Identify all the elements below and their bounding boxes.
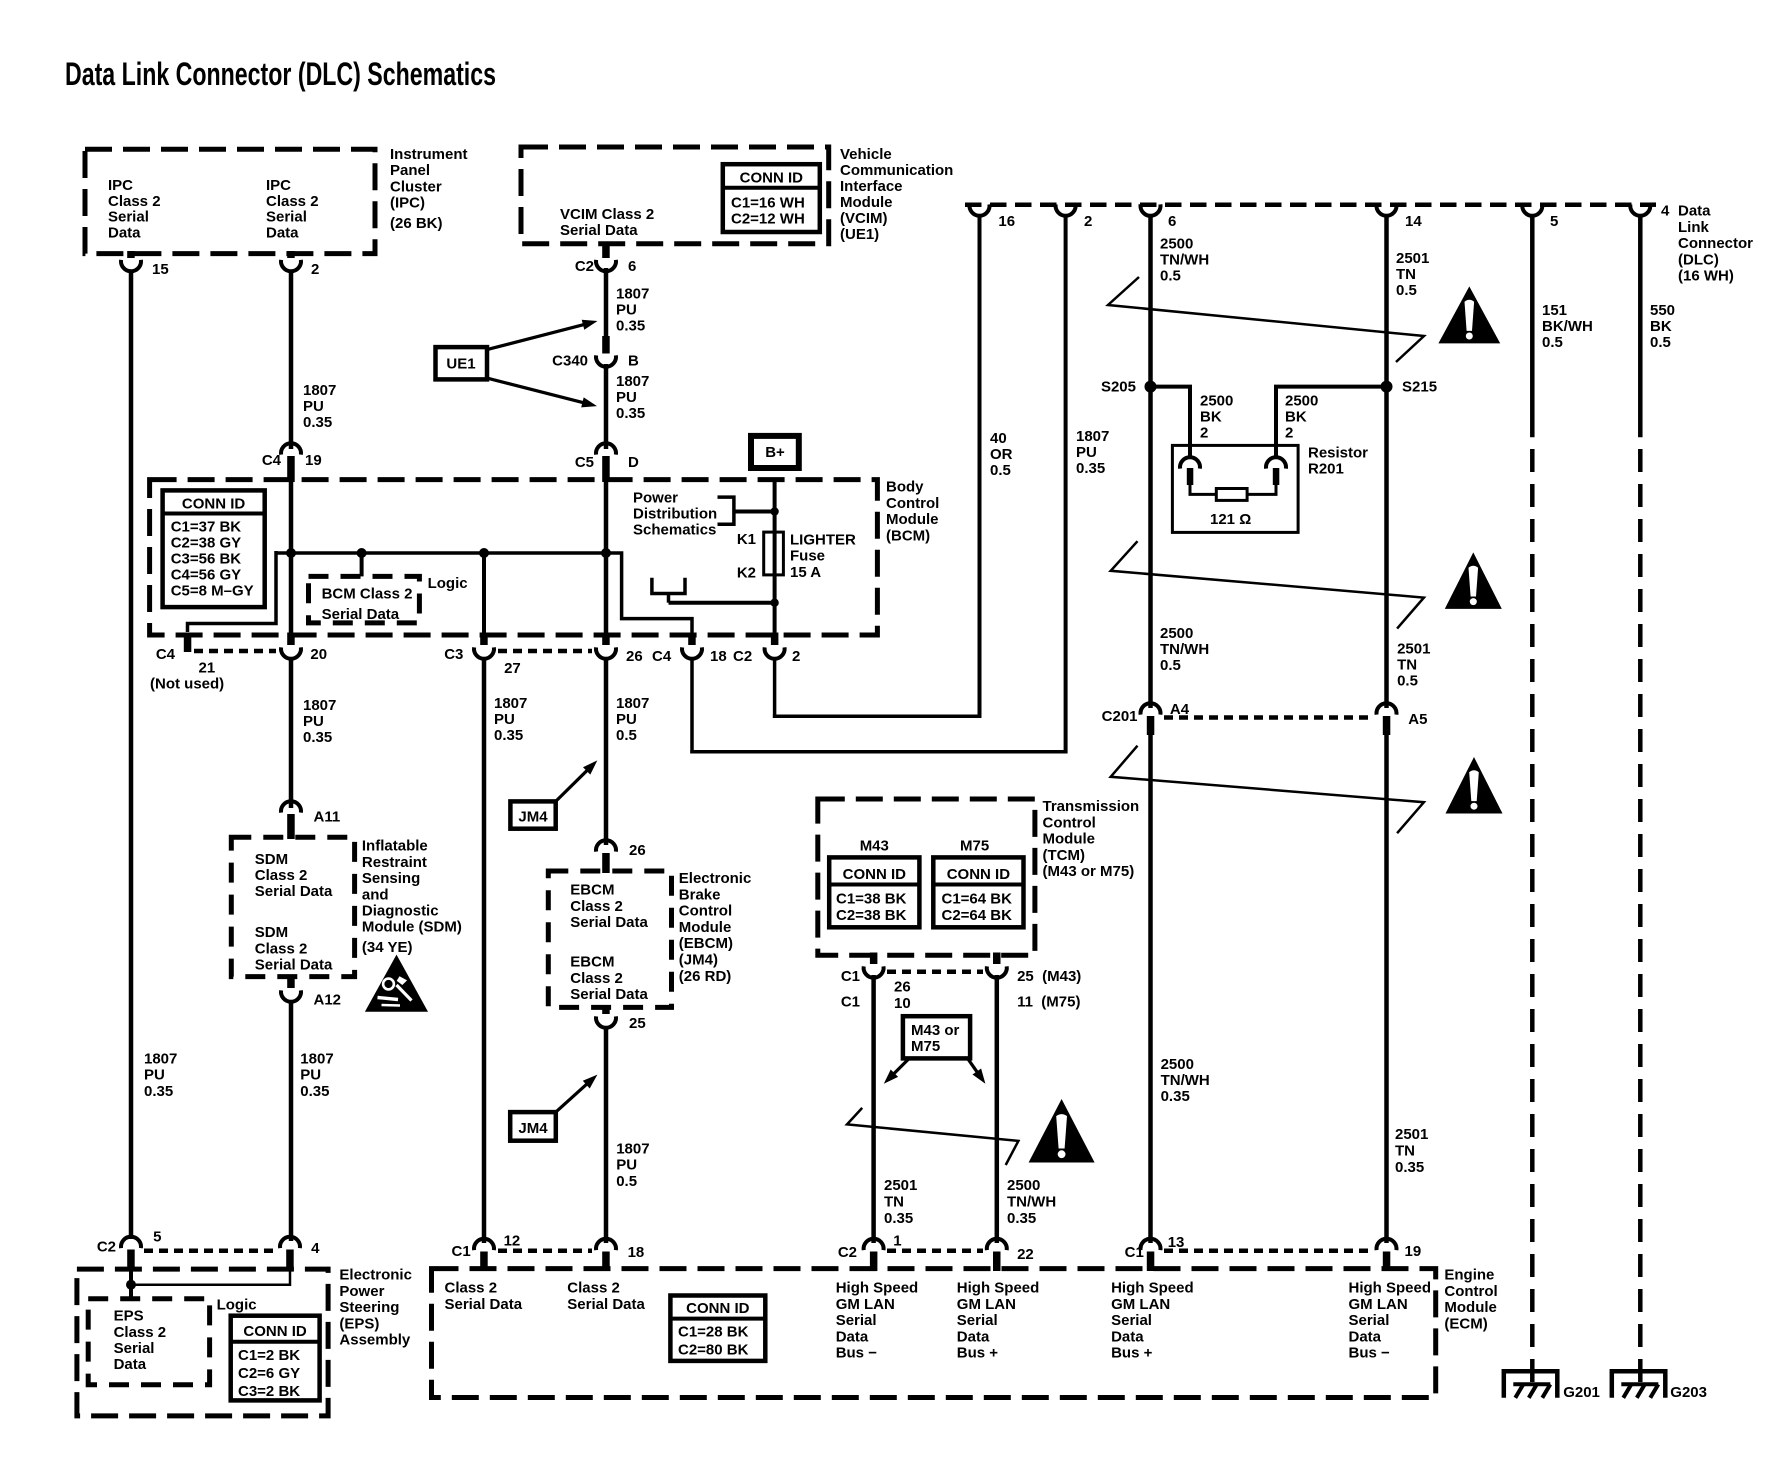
splice S215 xyxy=(1381,381,1393,393)
wire TCM right to ECM 22 (2500 TN/WH) xyxy=(995,975,1000,1243)
svg-text:C340: C340 xyxy=(552,353,588,370)
wire bus elbow to C4-18 xyxy=(604,553,692,640)
svg-text:C4: C4 xyxy=(262,452,282,469)
svg-text:PU: PU xyxy=(616,389,637,406)
svg-text:D: D xyxy=(628,454,639,471)
svg-text:C3=56 BK: C3=56 BK xyxy=(171,551,242,568)
svg-text:Interface: Interface xyxy=(840,178,903,195)
svg-text:4: 4 xyxy=(1661,203,1670,220)
svg-text:High Speed: High Speed xyxy=(1111,1280,1194,1297)
svg-text:25: 25 xyxy=(629,1015,646,1032)
svg-text:0.35: 0.35 xyxy=(1161,1088,1190,1105)
svg-text:Engine: Engine xyxy=(1444,1267,1494,1284)
svg-text:PU: PU xyxy=(616,1157,637,1174)
svg-text:Serial Data: Serial Data xyxy=(255,883,333,900)
svg-text:5: 5 xyxy=(1550,213,1558,230)
SRS airbag warning triangle xyxy=(365,955,428,1012)
warning triangle 1 (DLC area) xyxy=(1438,286,1500,343)
svg-text:Class 2: Class 2 xyxy=(114,1324,167,1341)
svg-text:BK: BK xyxy=(1200,409,1222,426)
svg-text:Class 2: Class 2 xyxy=(266,193,319,210)
svg-text:26: 26 xyxy=(626,648,643,665)
junction dot fuse output xyxy=(770,599,778,607)
svg-text:C2=38 BK: C2=38 BK xyxy=(836,907,907,924)
svg-text:(JM4): (JM4) xyxy=(679,952,718,969)
svg-text:19: 19 xyxy=(305,452,322,469)
junction dot EPS xyxy=(126,1280,136,1290)
svg-text:2501: 2501 xyxy=(884,1177,917,1194)
svg-text:Serial: Serial xyxy=(1111,1312,1152,1329)
svg-text:A12: A12 xyxy=(314,992,342,1009)
svg-text:1807: 1807 xyxy=(616,695,649,712)
svg-text:0.35: 0.35 xyxy=(144,1083,173,1100)
svg-text:C1: C1 xyxy=(841,968,860,985)
svg-text:26: 26 xyxy=(629,842,646,859)
svg-text:Serial: Serial xyxy=(108,209,149,226)
svg-text:10: 10 xyxy=(894,995,911,1012)
svg-text:Logic: Logic xyxy=(428,575,468,592)
svg-text:(DLC): (DLC) xyxy=(1678,251,1719,268)
svg-text:R201: R201 xyxy=(1308,461,1344,478)
BCM Class 2 Serial Data logic box xyxy=(309,576,420,623)
junction dot bus at pin19 wire xyxy=(286,548,296,558)
svg-text:Inflatable: Inflatable xyxy=(362,838,428,855)
svg-text:B+: B+ xyxy=(765,444,785,461)
svg-text:PU: PU xyxy=(616,711,637,728)
svg-text:TN: TN xyxy=(1397,657,1417,674)
svg-text:TN/WH: TN/WH xyxy=(1007,1193,1056,1210)
connector DLC pin 2 xyxy=(1056,204,1076,215)
svg-text:Serial Data: Serial Data xyxy=(255,956,333,973)
svg-text:2501: 2501 xyxy=(1397,640,1430,657)
svg-text:21: 21 xyxy=(199,659,216,676)
svg-text:0.35: 0.35 xyxy=(300,1083,329,1100)
svg-text:0.35: 0.35 xyxy=(1395,1159,1424,1176)
svg-text:Assembly: Assembly xyxy=(339,1332,411,1349)
connector line EPS C2-5 to 4 xyxy=(144,1249,276,1254)
connector SDM pin A11 xyxy=(281,801,301,812)
svg-text:Module: Module xyxy=(840,194,893,211)
svg-text:K1: K1 xyxy=(737,531,756,548)
svg-text:13: 13 xyxy=(1168,1234,1185,1251)
svg-text:M75: M75 xyxy=(960,837,989,854)
wire DLC pin5 dashed part to G201 xyxy=(1530,449,1535,1384)
connector line C4-21 to 20 xyxy=(194,649,276,654)
connector ECM C1 pin 12 xyxy=(474,1239,494,1250)
connector BCM pin 26 xyxy=(602,633,610,646)
wire BCM internal pinD to pin26 xyxy=(604,460,609,640)
svg-text:Body: Body xyxy=(886,479,924,496)
svg-text:C2=38 GY: C2=38 GY xyxy=(171,535,241,552)
connector ECM C1 pin 13 xyxy=(1141,1239,1161,1250)
svg-text:C5=8 M–GY: C5=8 M–GY xyxy=(171,583,254,600)
svg-text:C5: C5 xyxy=(575,454,594,471)
B+ power symbol xyxy=(751,436,799,468)
connector line C3-27 to 26 xyxy=(498,649,592,654)
svg-text:Schematics: Schematics xyxy=(633,522,716,539)
svg-text:Serial Data: Serial Data xyxy=(570,914,648,931)
svg-text:(ECM): (ECM) xyxy=(1444,1316,1487,1333)
svg-text:1807: 1807 xyxy=(1076,428,1109,445)
svg-text:4: 4 xyxy=(311,1240,320,1257)
svg-text:Data Link Connector (DLC) Sche: Data Link Connector (DLC) Schematics xyxy=(65,56,496,92)
svg-text:Vehicle: Vehicle xyxy=(840,146,892,163)
svg-text:(TCM): (TCM) xyxy=(1043,847,1085,864)
svg-text:0.5: 0.5 xyxy=(1650,334,1671,351)
wire SDM A12 to EPS pin4 (1807 PU) xyxy=(289,1001,294,1241)
warning triangle 4 (TCM area) xyxy=(1029,1099,1095,1163)
svg-text:Sensing: Sensing xyxy=(362,870,420,887)
svg-text:Connector: Connector xyxy=(1678,235,1753,252)
warning pointer zigzag 4 xyxy=(847,1108,1018,1165)
svg-text:C2: C2 xyxy=(575,258,594,275)
svg-text:C2=64 BK: C2=64 BK xyxy=(942,907,1013,924)
svg-text:High Speed: High Speed xyxy=(957,1280,1040,1297)
svg-text:A4: A4 xyxy=(1170,701,1190,718)
svg-text:Brake: Brake xyxy=(679,886,721,903)
connector line ECM 1-22 xyxy=(887,1249,983,1254)
wire logic link to fuse output xyxy=(669,601,775,605)
connector ECM pin 22 xyxy=(987,1239,1007,1250)
svg-text:PU: PU xyxy=(1076,444,1097,461)
CONN ID box EPS xyxy=(231,1316,320,1401)
wire VCIM C2-6 to C340 (1807 PU) xyxy=(604,268,609,340)
svg-text:Serial: Serial xyxy=(957,1312,998,1329)
connector DLC pin 4 xyxy=(1630,204,1650,215)
svg-text:PU: PU xyxy=(303,398,324,415)
svg-text:Resistor: Resistor xyxy=(1308,445,1368,462)
connector BCM C2 pin 2 xyxy=(771,633,779,646)
wire S215 to resistor right leg xyxy=(1276,387,1387,459)
CONN ID box TCM M75 xyxy=(933,857,1023,927)
warning pointer zigzag 1 xyxy=(1108,277,1424,362)
svg-text:19: 19 xyxy=(1405,1243,1422,1260)
svg-text:IPC: IPC xyxy=(266,177,291,194)
svg-text:GM LAN: GM LAN xyxy=(957,1296,1016,1313)
svg-text:CONN ID: CONN ID xyxy=(740,170,804,187)
svg-text:Electronic: Electronic xyxy=(339,1267,412,1284)
svg-text:CONN ID: CONN ID xyxy=(243,1323,307,1340)
svg-text:16: 16 xyxy=(998,213,1015,230)
svg-text:B: B xyxy=(628,353,639,370)
connector IPC pin 2 xyxy=(287,251,295,258)
svg-text:2: 2 xyxy=(1285,425,1293,442)
svg-text:2501: 2501 xyxy=(1396,250,1429,267)
svg-text:Serial Data: Serial Data xyxy=(570,986,648,1003)
component label box JM4 upper with arrow xyxy=(510,801,555,828)
connector EBCM pin 25 xyxy=(602,1005,610,1014)
svg-text:(VCIM): (VCIM) xyxy=(840,210,888,227)
svg-text:6: 6 xyxy=(1168,213,1176,230)
svg-text:UE1: UE1 xyxy=(446,356,475,373)
module EPS box xyxy=(77,1269,328,1416)
svg-text:PU: PU xyxy=(494,711,515,728)
connector BCM C4 pin 18 xyxy=(688,633,696,646)
wire BCM internal B+ fuse feed xyxy=(773,479,777,640)
svg-text:26: 26 xyxy=(894,978,911,995)
svg-text:TN/WH: TN/WH xyxy=(1161,1072,1210,1089)
svg-text:(M43 or M75): (M43 or M75) xyxy=(1043,863,1135,880)
svg-text:Power: Power xyxy=(633,490,678,507)
svg-text:Bus −: Bus − xyxy=(1349,1345,1391,1362)
CONN ID box ECM xyxy=(670,1296,765,1361)
svg-text:Bus −: Bus − xyxy=(836,1345,878,1362)
wire DLC pin5 (151 BK/WH) solid part xyxy=(1530,214,1535,437)
svg-text:Bus +: Bus + xyxy=(957,1345,999,1362)
wire EBCM 25 to ECM 18 (1807 PU) xyxy=(604,1027,609,1243)
svg-text:High Speed: High Speed xyxy=(1349,1280,1432,1297)
svg-text:Control: Control xyxy=(1043,814,1096,831)
module TCM box xyxy=(818,799,1035,955)
wire DLC pin4 dashed part to G203 xyxy=(1638,449,1643,1384)
svg-text:EPS: EPS xyxy=(114,1308,144,1325)
svg-text:2: 2 xyxy=(311,261,319,278)
svg-text:C3: C3 xyxy=(444,646,463,663)
svg-text:0.5: 0.5 xyxy=(1160,657,1181,674)
svg-text:Class 2: Class 2 xyxy=(445,1280,498,1297)
warning triangle 3 xyxy=(1446,757,1503,814)
ground G203 xyxy=(1612,1371,1666,1398)
connector C340 pin B xyxy=(602,336,610,354)
svg-text:Fuse: Fuse xyxy=(790,548,825,565)
connector DLC pin 14 xyxy=(1377,204,1397,215)
svg-text:Serial Data: Serial Data xyxy=(445,1296,523,1313)
svg-text:18: 18 xyxy=(710,648,727,665)
wire BCM internal class-2 bus xyxy=(276,551,606,555)
svg-text:C1=2 BK: C1=2 BK xyxy=(238,1347,300,1364)
resistor internal connector right xyxy=(1266,457,1286,468)
junction dot bus at C3-27 wire xyxy=(479,548,489,558)
svg-text:C3=2 BK: C3=2 BK xyxy=(238,1383,300,1400)
svg-text:Restraint: Restraint xyxy=(362,854,427,871)
svg-text:(BCM): (BCM) xyxy=(886,527,930,544)
svg-text:C1=37 BK: C1=37 BK xyxy=(171,519,242,536)
connector EBCM pin 26 xyxy=(596,840,616,851)
svg-text:25 (M43): 25 (M43) xyxy=(1017,968,1081,985)
connector ECM C2 pin 1 xyxy=(864,1239,884,1250)
svg-text:TN: TN xyxy=(1395,1142,1415,1159)
svg-text:PU: PU xyxy=(303,713,324,730)
svg-text:M43: M43 xyxy=(860,837,889,854)
svg-text:PU: PU xyxy=(616,302,637,319)
svg-text:0.5: 0.5 xyxy=(990,462,1011,479)
svg-text:LIGHTER: LIGHTER xyxy=(790,531,856,548)
resistor R201 element xyxy=(1190,484,1216,494)
svg-text:5: 5 xyxy=(153,1229,161,1246)
svg-text:0.5: 0.5 xyxy=(1396,282,1417,299)
svg-text:(34 YE): (34 YE) xyxy=(362,939,413,956)
CONN ID box BCM xyxy=(163,490,265,607)
connector line C201 A4-A5 xyxy=(1164,715,1373,720)
module IPC (Instrument Panel Cluster) box xyxy=(85,149,375,253)
BCM internal logic symbol xyxy=(652,578,685,594)
svg-text:Power: Power xyxy=(339,1283,384,1300)
svg-text:CONN ID: CONN ID xyxy=(686,1300,750,1317)
svg-text:G201: G201 xyxy=(1563,1384,1600,1401)
svg-text:1807: 1807 xyxy=(616,1141,649,1158)
svg-text:15 A: 15 A xyxy=(790,564,821,581)
svg-text:Data: Data xyxy=(114,1356,147,1373)
warning pointer zigzag 3 xyxy=(1111,746,1424,834)
svg-text:20: 20 xyxy=(310,646,327,663)
warning triangle 2 xyxy=(1445,552,1502,609)
svg-text:CONN ID: CONN ID xyxy=(843,866,907,883)
connector BCM C3 pin 27 xyxy=(480,633,488,646)
EBCM inner box xyxy=(548,871,671,1007)
svg-text:G203: G203 xyxy=(1670,1384,1707,1401)
svg-text:1807: 1807 xyxy=(144,1050,177,1067)
connector SDM pin A12 xyxy=(287,975,295,989)
connector BCM pin 20 xyxy=(287,633,295,646)
wire C340-B to BCM C5-D (1807 PU) xyxy=(604,364,609,449)
svg-text:Serial Data: Serial Data xyxy=(322,606,400,623)
wire link C2-2 to DLC pin16 xyxy=(773,714,981,718)
svg-text:(UE1): (UE1) xyxy=(840,226,879,243)
svg-text:CONN ID: CONN ID xyxy=(947,866,1011,883)
svg-text:EBCM: EBCM xyxy=(570,954,614,971)
svg-text:GM LAN: GM LAN xyxy=(1349,1296,1408,1313)
svg-text:Data: Data xyxy=(1349,1328,1382,1345)
svg-text:Cluster: Cluster xyxy=(390,178,442,195)
connector DLC pin 5 xyxy=(1522,204,1542,215)
svg-text:C2=6 GY: C2=6 GY xyxy=(238,1365,300,1382)
connector ECM pin 19 xyxy=(1377,1239,1397,1250)
svg-text:12: 12 xyxy=(504,1233,521,1250)
svg-text:C4=56 GY: C4=56 GY xyxy=(171,567,241,584)
svg-text:Serial: Serial xyxy=(1349,1312,1390,1329)
svg-text:Bus +: Bus + xyxy=(1111,1345,1153,1362)
svg-text:C2=80 BK: C2=80 BK xyxy=(678,1342,749,1359)
connector EPS C2 pin 5 xyxy=(121,1237,141,1248)
svg-text:C1=38 BK: C1=38 BK xyxy=(836,891,907,908)
svg-text:BCM Class 2: BCM Class 2 xyxy=(322,586,413,603)
svg-text:2500: 2500 xyxy=(1160,625,1193,642)
svg-text:0.35: 0.35 xyxy=(616,318,645,335)
svg-text:Serial Data: Serial Data xyxy=(567,1296,645,1313)
svg-text:C4: C4 xyxy=(652,648,672,665)
svg-text:Module: Module xyxy=(679,919,732,936)
module ECM box xyxy=(432,1269,1436,1398)
wire IPC pin2 to BCM C4-19 (1807 PU) xyxy=(289,271,294,449)
svg-text:PU: PU xyxy=(300,1067,321,1084)
svg-text:(IPC): (IPC) xyxy=(390,195,425,212)
svg-text:1: 1 xyxy=(893,1233,901,1250)
wire DLC pin6 to C201 A4 (2500 TN/WH) xyxy=(1148,214,1153,708)
svg-text:C1=64 BK: C1=64 BK xyxy=(942,891,1013,908)
wire BCM 20 to SDM A11 (1807 PU) xyxy=(289,657,294,808)
svg-text:0.5: 0.5 xyxy=(1397,673,1418,690)
svg-text:Module (SDM): Module (SDM) xyxy=(362,919,462,936)
svg-text:0.5: 0.5 xyxy=(616,727,637,744)
wire BCM C4-18 vertical drop xyxy=(690,657,694,753)
svg-text:(26 RD): (26 RD) xyxy=(679,968,732,985)
connector BCM C5 pin D xyxy=(596,443,616,454)
svg-text:0.35: 0.35 xyxy=(616,405,645,422)
connector line TCM C1 xyxy=(887,969,983,974)
svg-text:Module: Module xyxy=(1444,1299,1497,1316)
connector DLC pin 16 xyxy=(969,204,989,215)
connector BCM C4 pin 21 (not used) xyxy=(184,633,192,653)
EPS Class 2 Serial Data logic box xyxy=(88,1299,209,1385)
svg-text:Class 2: Class 2 xyxy=(570,898,623,915)
wire DLC pin14 to A5 (2501 TN) xyxy=(1384,214,1389,708)
junction dot bus at logic stub xyxy=(357,548,367,558)
svg-text:C1: C1 xyxy=(1125,1244,1144,1261)
svg-text:550: 550 xyxy=(1650,302,1675,319)
connector EPS pin 4 xyxy=(280,1237,300,1248)
svg-text:Serial: Serial xyxy=(266,209,307,226)
wire A5 to ECM 19 (2501 TN) xyxy=(1384,735,1389,1243)
svg-text:1807: 1807 xyxy=(300,1050,333,1067)
svg-text:Data: Data xyxy=(957,1328,990,1345)
svg-text:2501: 2501 xyxy=(1395,1126,1428,1143)
junction dot bus at C5-D wire xyxy=(601,548,611,558)
connector C201 pin A5 xyxy=(1377,703,1397,714)
svg-text:2500: 2500 xyxy=(1161,1056,1194,1073)
svg-text:C2=12 WH: C2=12 WH xyxy=(731,211,805,228)
wire EPS internal links xyxy=(131,1268,290,1285)
wire bracket link to B+ feed xyxy=(734,510,775,514)
resistor internal connector left xyxy=(1180,457,1200,468)
svg-text:Control: Control xyxy=(679,903,732,920)
svg-text:0.35: 0.35 xyxy=(303,729,332,746)
svg-text:(Not used): (Not used) xyxy=(150,675,224,692)
svg-text:TN/WH: TN/WH xyxy=(1160,641,1209,658)
svg-text:0.5: 0.5 xyxy=(616,1173,637,1190)
svg-text:Panel: Panel xyxy=(390,162,430,179)
svg-text:TN: TN xyxy=(1396,266,1416,283)
svg-text:JM4: JM4 xyxy=(518,1120,548,1137)
svg-text:Transmission: Transmission xyxy=(1043,798,1140,815)
svg-text:PU: PU xyxy=(144,1067,165,1084)
CONN ID box VCIM xyxy=(723,164,820,232)
svg-text:A11: A11 xyxy=(314,808,341,825)
fuse LIGHTER 15A xyxy=(764,532,784,575)
SDM inner box xyxy=(231,837,354,976)
svg-text:Logic: Logic xyxy=(217,1296,257,1313)
svg-text:Instrument: Instrument xyxy=(390,146,468,163)
module BCM box xyxy=(150,480,878,635)
wire DLC pin16 drop (40 OR) xyxy=(978,214,982,718)
svg-text:1807: 1807 xyxy=(616,373,649,390)
svg-text:Class 2: Class 2 xyxy=(255,940,308,957)
svg-text:C1=16 WH: C1=16 WH xyxy=(731,195,805,212)
svg-text:VCIM Class 2: VCIM Class 2 xyxy=(560,206,654,223)
wire BCM internal pin19-pin20 xyxy=(289,460,294,640)
connector DLC pin 6 xyxy=(1141,204,1161,215)
connector TCM C1 pin 25/11 xyxy=(993,953,1001,965)
svg-text:Data: Data xyxy=(266,224,299,241)
svg-text:SDM: SDM xyxy=(255,924,288,941)
component label box JM4 lower with arrow xyxy=(510,1112,556,1141)
component label box UE1 with arrows xyxy=(436,347,488,379)
svg-text:2: 2 xyxy=(1200,425,1208,442)
svg-text:1807: 1807 xyxy=(494,695,527,712)
connector C201 pin A4 xyxy=(1141,703,1161,714)
svg-text:14: 14 xyxy=(1405,213,1422,230)
wire C201 A4 to ECM C1-13 (2500 TN/WH) xyxy=(1148,735,1153,1243)
component label box M43 or M75 with arrows xyxy=(903,1016,970,1058)
wire BCM C3-27 to ECM C1-12 (1807 PU) xyxy=(482,657,487,1243)
svg-text:11 (M75): 11 (M75) xyxy=(1017,994,1080,1011)
svg-text:Control: Control xyxy=(886,495,939,512)
DLC connector dashed line xyxy=(965,202,1656,207)
svg-text:and: and xyxy=(362,886,389,903)
svg-text:C4: C4 xyxy=(156,646,176,663)
svg-text:S215: S215 xyxy=(1402,379,1437,396)
connector ECM pin 18 xyxy=(596,1239,616,1250)
wire S205 to resistor left leg xyxy=(1151,387,1191,459)
